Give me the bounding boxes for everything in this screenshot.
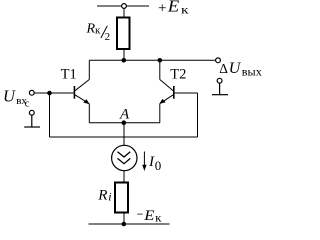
- arrow emitter T2: [159, 99, 165, 104]
- label Uvx_c: [3, 86, 30, 109]
- wire terminal to resistor Rk/2: [123, 8, 125, 17]
- arrow I0: [142, 152, 146, 172]
- resistor Rk/2: [117, 18, 130, 50]
- wire current source to Ri: [123, 171, 125, 183]
- transistor T2: [160, 60, 174, 122]
- terminal output: [216, 58, 221, 63]
- svg-text:E: E: [143, 208, 154, 224]
- svg-text:Δ: Δ: [219, 61, 228, 76]
- node A: [122, 120, 127, 125]
- svg-text:−: −: [137, 207, 144, 223]
- terminal input top: [29, 90, 34, 95]
- wire right side down: [197, 93, 199, 137]
- svg-text:E: E: [167, 0, 180, 16]
- junction dot resistor/rail: [122, 58, 127, 63]
- svg-text:к: к: [155, 211, 161, 225]
- ground output: [212, 83, 228, 95]
- wire input to T1 base: [35, 92, 74, 94]
- arrow emitter T1: [83, 99, 89, 104]
- wire emitters join: [89, 122, 160, 124]
- svg-text:T2: T2: [170, 67, 186, 83]
- transistor T1: [74, 60, 89, 122]
- svg-text:с: с: [25, 99, 30, 110]
- label Ri: [97, 187, 111, 203]
- label +Ek: [158, 0, 189, 17]
- wire node A to current source: [123, 123, 125, 146]
- svg-text:вых: вых: [242, 66, 262, 78]
- bottom rail wire: [89, 223, 170, 225]
- resistor Ri: [115, 183, 128, 213]
- svg-text:0: 0: [155, 158, 162, 173]
- terminal +Ek: [122, 4, 127, 9]
- svg-text:i: i: [108, 189, 111, 203]
- terminal output ground: [217, 78, 222, 83]
- label dUvyh: [219, 60, 262, 79]
- svg-text:U: U: [229, 60, 242, 77]
- svg-text:T1: T1: [61, 67, 77, 83]
- wire bottom feedback: [50, 136, 198, 138]
- ground input: [24, 115, 40, 127]
- svg-text:2: 2: [105, 31, 111, 43]
- wire T2 base to right: [175, 92, 198, 94]
- terminal input bottom: [29, 110, 34, 115]
- wire Ri to bottom rail: [123, 213, 125, 224]
- label -Ek: [137, 207, 162, 224]
- junction dot bottom rail: [122, 222, 127, 227]
- junction dot base T1: [47, 91, 52, 96]
- svg-text:U: U: [3, 86, 16, 105]
- svg-text:R: R: [97, 187, 107, 203]
- svg-text:+: +: [158, 0, 166, 16]
- label I0: [148, 154, 161, 173]
- current source I0: [112, 145, 137, 170]
- wire left side up: [49, 93, 51, 137]
- svg-text:R: R: [86, 22, 96, 37]
- wire resistor Rk/2 to rail: [123, 49, 125, 60]
- svg-text:к: к: [181, 3, 189, 17]
- top rail wire: [89, 59, 218, 61]
- svg-text:A: A: [119, 106, 130, 122]
- wire top supply rail to +Ek terminal: [97, 5, 149, 7]
- svg-text:к: к: [95, 25, 101, 37]
- label Rk/2: [86, 22, 111, 43]
- junction dot T2 collector/rail: [158, 58, 163, 63]
